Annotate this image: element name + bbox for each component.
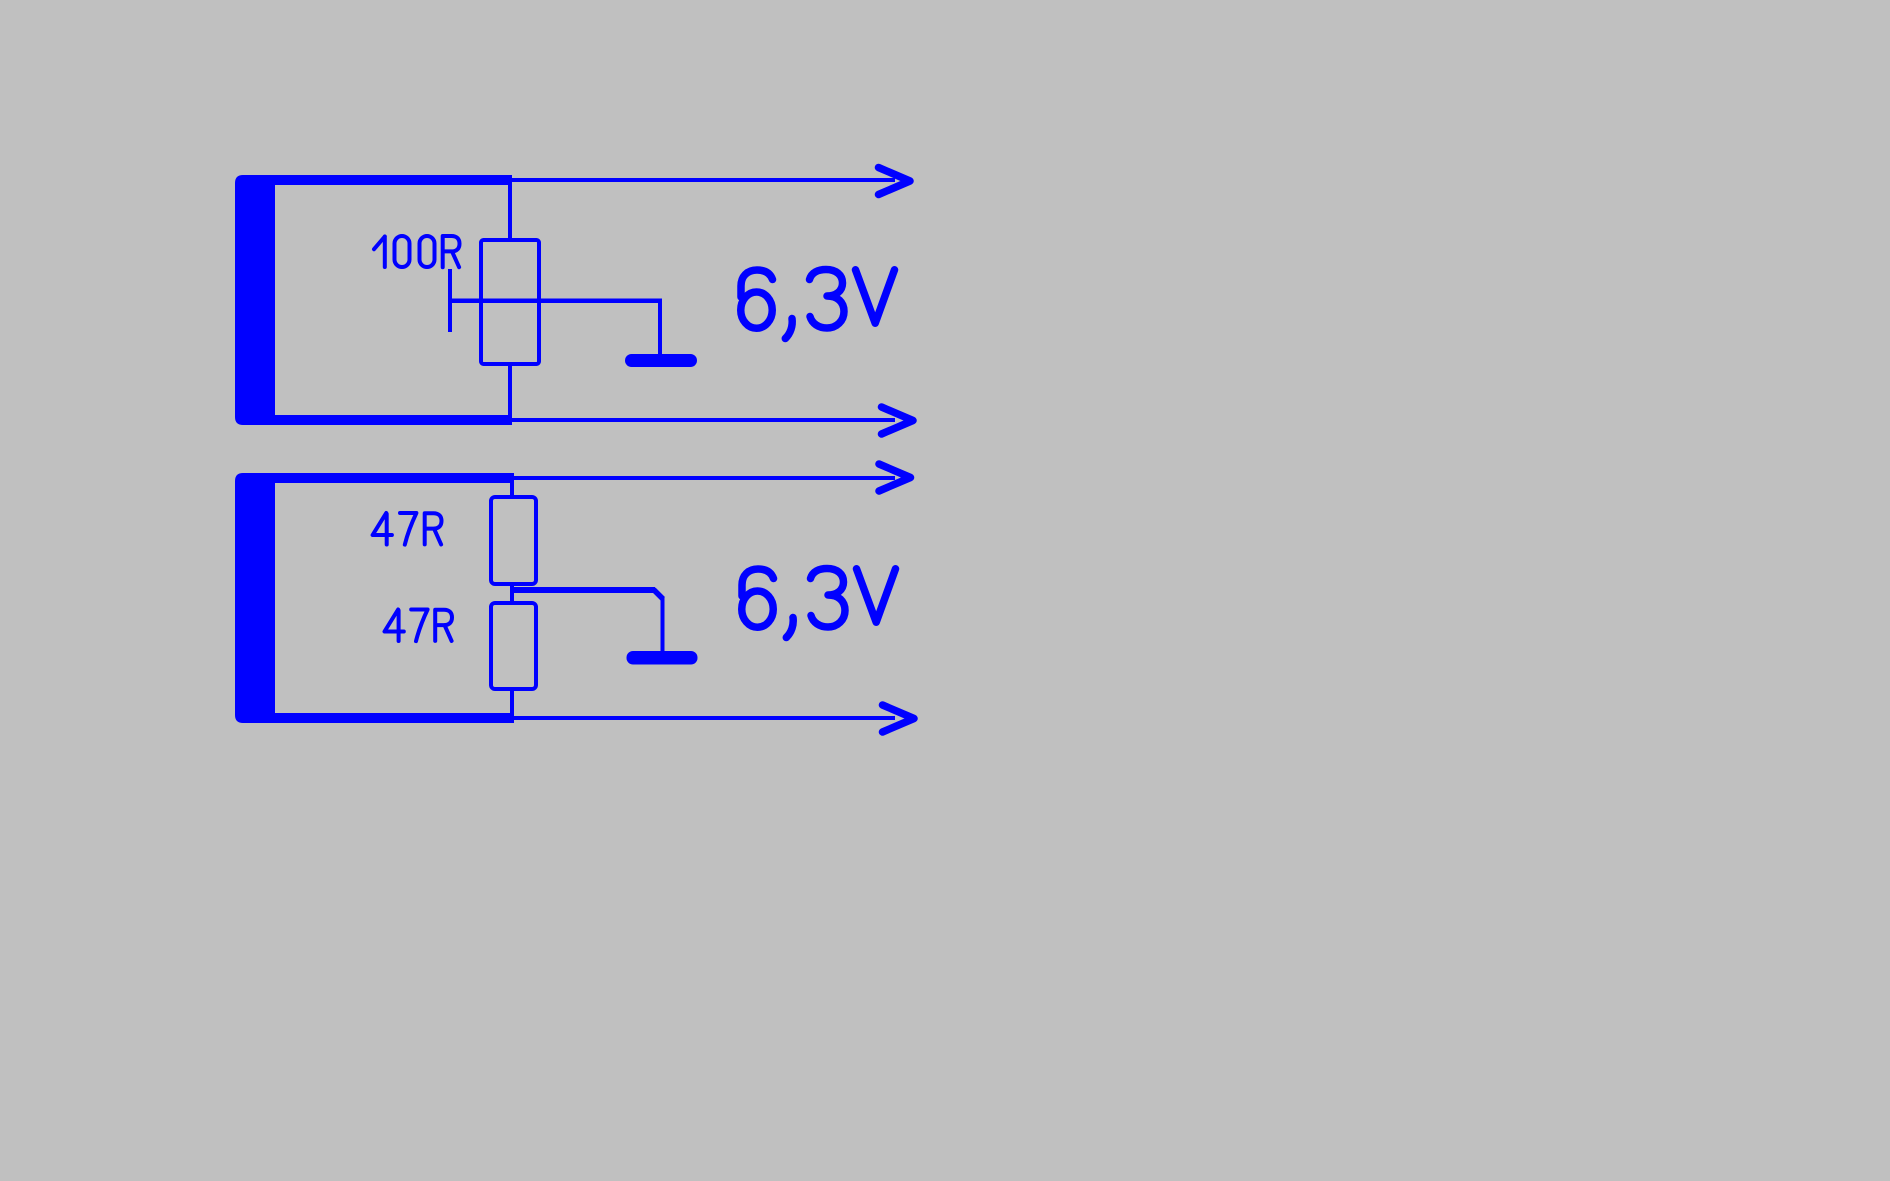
arrowhead (top circuit, lower lead) — [882, 407, 914, 434]
arrowhead (bottom circuit, lower lead) — [883, 705, 915, 732]
transformer winding W1 (top 6,3V heater winding, thick C-frame) — [235, 175, 512, 425]
resistor R2 47R — [491, 603, 536, 689]
pot wiper T-bar — [448, 269, 452, 332]
resistor R1 47R — [491, 497, 536, 584]
wire: chamfered bend of tap wire — [654, 590, 664, 600]
arrowhead (top circuit, upper lead) — [879, 168, 911, 195]
wire: center tap to ground (horizontal run) — [512, 587, 655, 593]
potentiometer 100R (humdinger pot body) — [481, 240, 539, 364]
wire: W1 top terminal to pot top — [508, 185, 512, 238]
voltage label 6,3V (top) — [741, 270, 895, 339]
value label 47R (R2) — [385, 610, 453, 642]
value label 47R (R1) — [373, 513, 442, 545]
wire: R2 bottom to W2 bottom terminal — [510, 691, 514, 713]
wire: top heater lead (upper arrow line) — [512, 178, 895, 182]
wire: tap vertical drop to ground — [661, 597, 665, 651]
wire: wiper to ground — [658, 300, 662, 354]
wire: W2 top terminal to R1 top — [510, 483, 514, 497]
wire: R1 bottom to R2 top (center tap node) — [510, 586, 514, 602]
value label 100R — [374, 236, 460, 267]
wire: top heater lead (lower arrow line) — [512, 418, 895, 422]
voltage label 6,3V (bottom) — [742, 569, 896, 638]
transformer winding W2 (bottom 6,3V heater winding, thick C-frame) — [235, 473, 514, 723]
pot wiper line — [448, 299, 662, 304]
ground (bottom circuit) — [627, 651, 698, 665]
ground (top circuit) — [625, 354, 697, 367]
arrowhead (bottom circuit, upper lead) — [879, 464, 911, 491]
wire: pot bottom to W1 bottom terminal — [508, 366, 512, 415]
wire: bottom heater lead (lower arrow line) — [514, 716, 895, 720]
wire: bottom heater lead (upper arrow line) — [514, 476, 895, 480]
